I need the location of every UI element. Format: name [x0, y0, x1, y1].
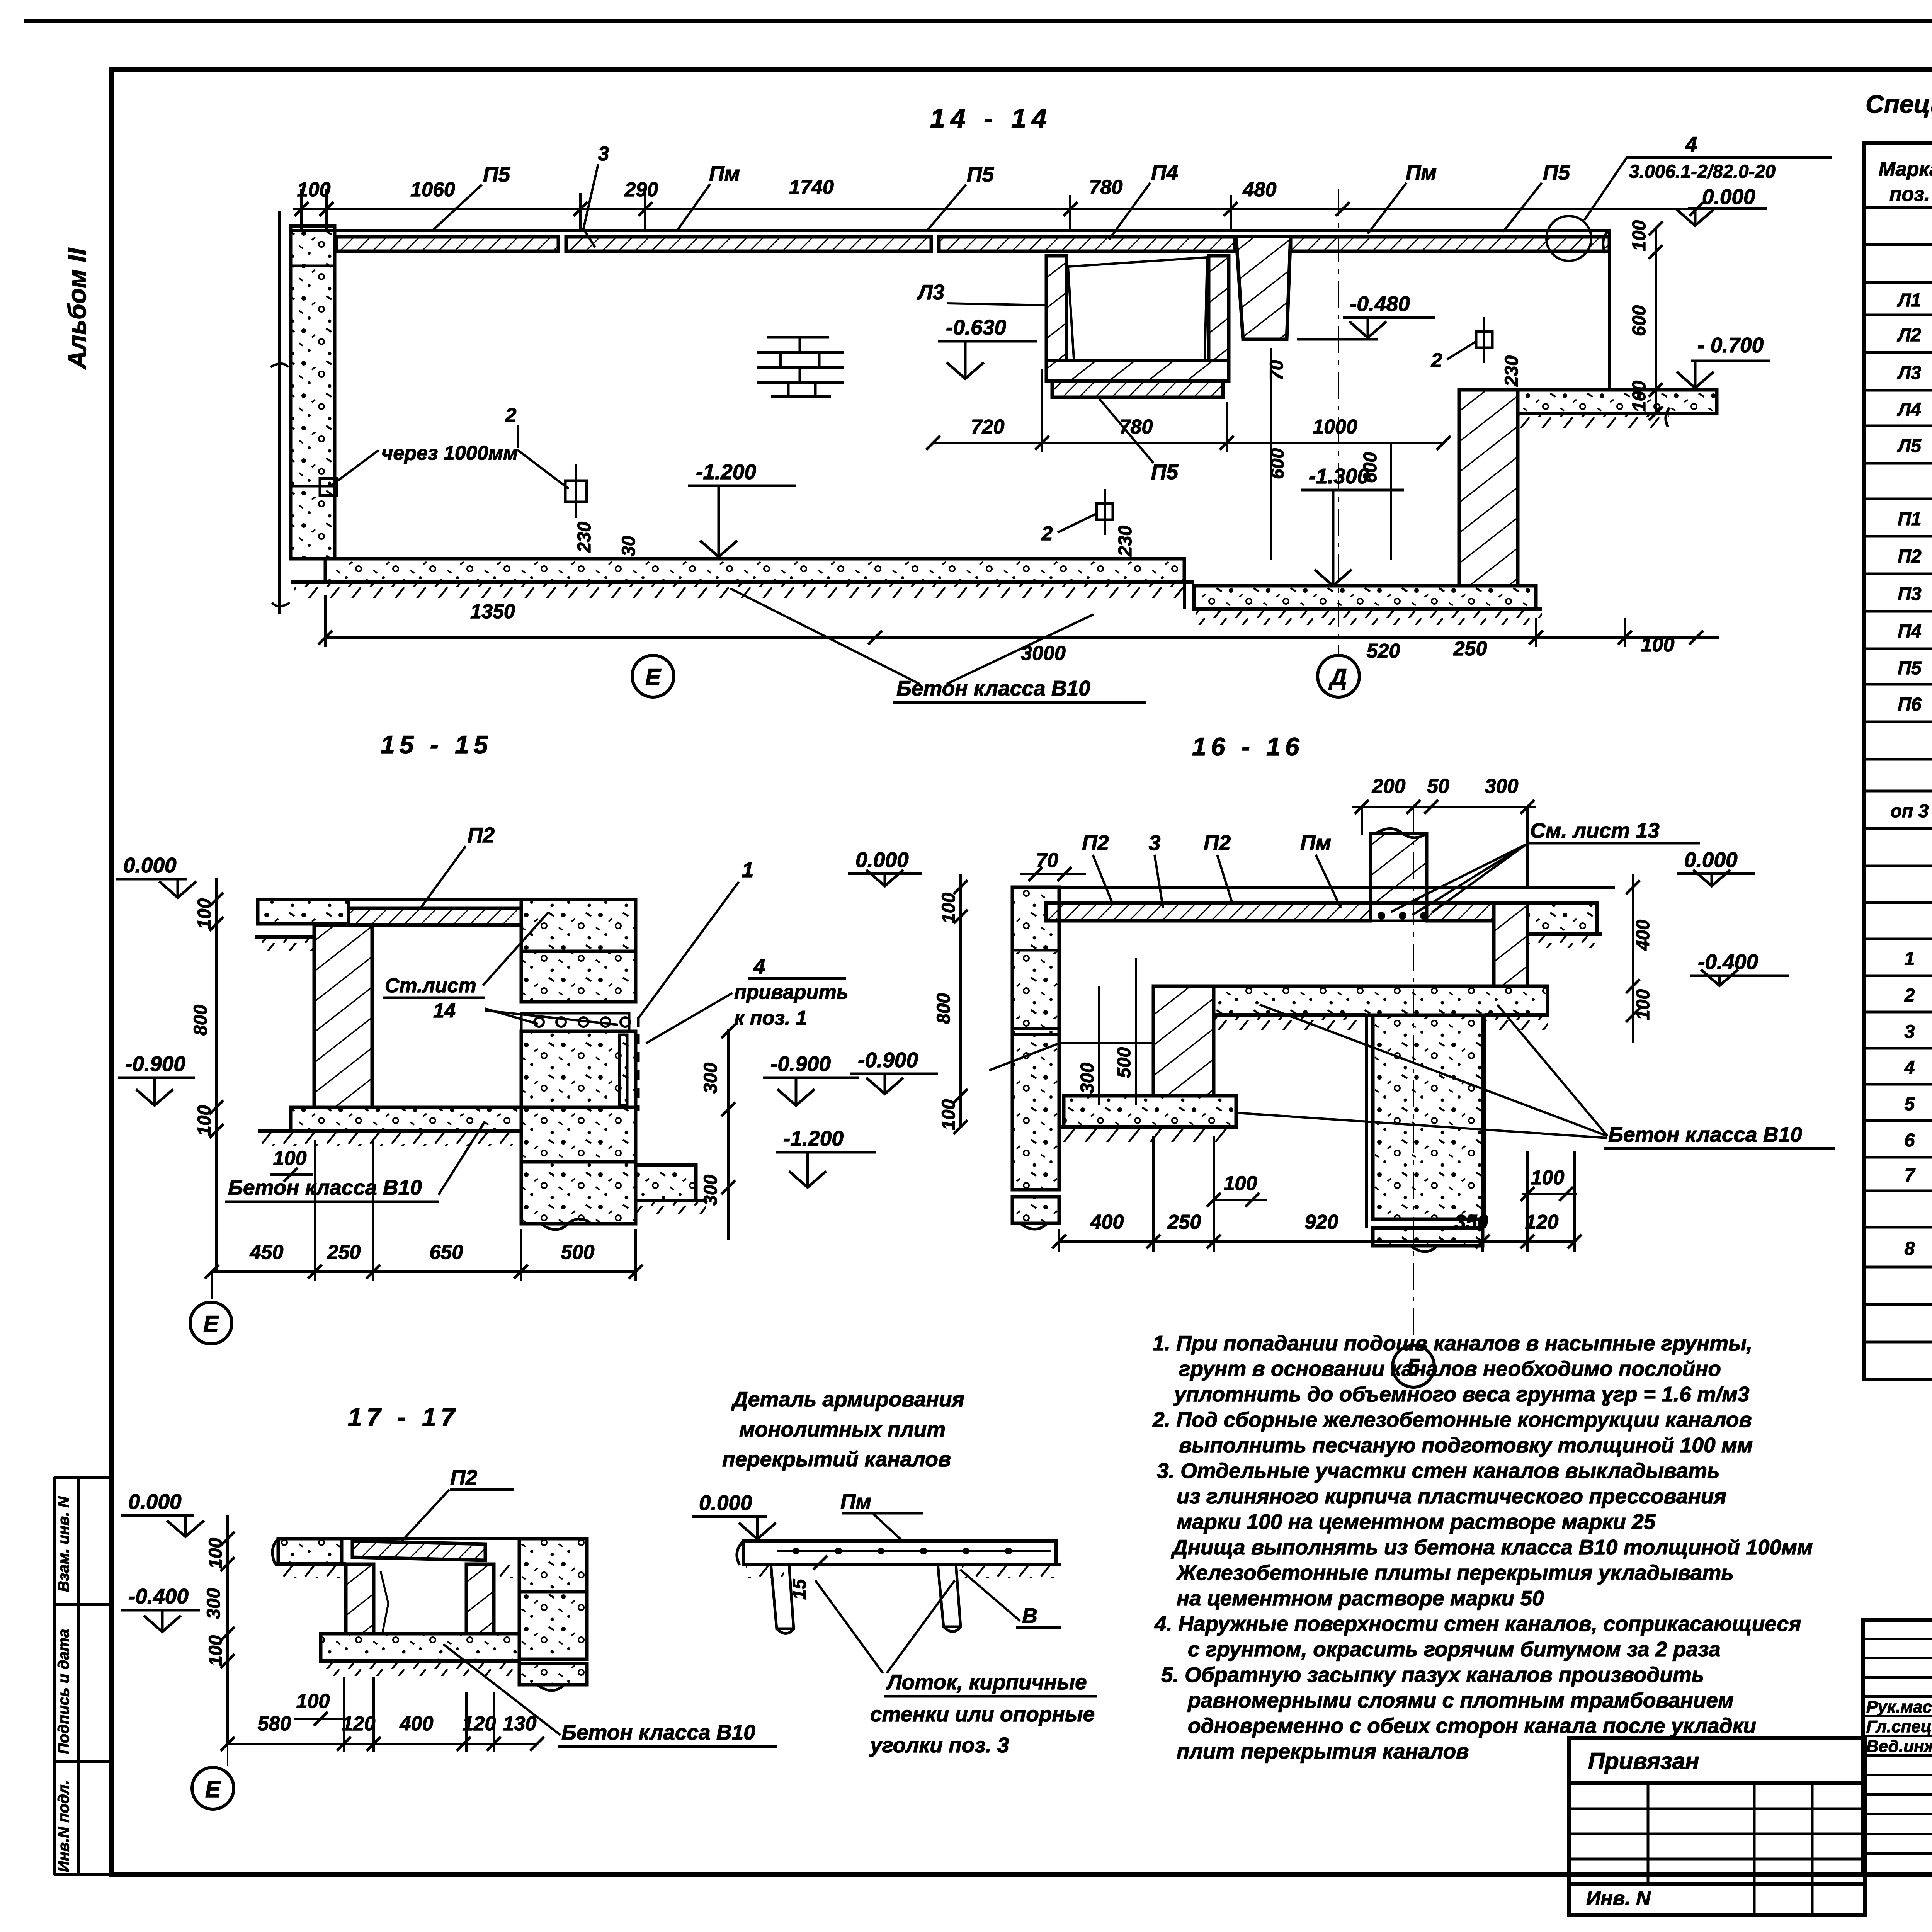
svg-text:720: 720: [971, 416, 1005, 438]
svg-text:-0.900: -0.900: [858, 1048, 918, 1072]
left stamp column: [53, 1477, 56, 1875]
svg-text:300: 300: [701, 1063, 721, 1094]
svg-text:14: 14: [433, 1000, 456, 1022]
svg-text:0.000: 0.000: [128, 1490, 182, 1514]
precast slab P5 hatched piece 3: [939, 237, 1235, 251]
svg-text:П2: П2: [1204, 831, 1231, 855]
svg-text:Бетон класса В10: Бетон класса В10: [228, 1175, 422, 1199]
svg-text:0.000: 0.000: [123, 853, 177, 877]
svg-text:Бетон класса В10: Бетон класса В10: [561, 1720, 755, 1744]
mid slab band: [1214, 986, 1548, 1015]
right blocks: [519, 1539, 587, 1592]
svg-text:1350: 1350: [470, 600, 515, 623]
slab hatched band right part: [1427, 903, 1494, 921]
svg-text:П2: П2: [1082, 831, 1109, 855]
right ground line: [1518, 412, 1670, 415]
svg-text:800: 800: [190, 1005, 211, 1036]
centerline axis 5: [1413, 807, 1414, 1344]
svg-text:250: 250: [1167, 1211, 1201, 1233]
svg-text:Взам. инв. N: Взам. инв. N: [55, 1496, 72, 1592]
svg-text:-0.900: -0.900: [125, 1052, 185, 1076]
svg-text:100: 100: [1633, 989, 1653, 1020]
svg-text:0.000: 0.000: [699, 1491, 752, 1515]
ground hatch under mid slab: [1214, 1013, 1366, 1017]
svg-text:Подпись и дата: Подпись и дата: [55, 1629, 72, 1754]
svg-text:Деталь армирования: Деталь армирования: [731, 1387, 964, 1411]
ground line upper: [291, 580, 1194, 584]
axis line: [227, 1744, 228, 1766]
svg-text:2. Под сборные железобетонные: 2. Под сборные железобетонные конструкци…: [1152, 1408, 1752, 1432]
svg-text:Пм: Пм: [1406, 160, 1437, 184]
channel right wall: [466, 1564, 494, 1634]
svg-text:из глиняного кирпича пластичес: из глиняного кирпича пластического пресс…: [1177, 1484, 1726, 1508]
svg-text:15: 15: [789, 1578, 810, 1600]
svg-text:Ст.лист: Ст.лист: [385, 975, 476, 997]
bottom chain: [228, 1743, 537, 1745]
svg-text:Л1: Л1: [1897, 290, 1921, 311]
svg-text:580: 580: [258, 1713, 291, 1735]
svg-text:100: 100: [296, 1690, 330, 1713]
spec table grid: [1864, 143, 1932, 1379]
wall joint 2: [291, 485, 335, 488]
pit concrete fill: [1373, 1015, 1483, 1219]
top dimension chain: [293, 189, 1696, 229]
svg-text:4: 4: [1685, 132, 1697, 156]
axis circle D: [1318, 655, 1359, 697]
anchor square bottom mid: [1097, 503, 1113, 520]
svg-text:Л3: Л3: [917, 280, 944, 304]
svg-text:1. При попадании подошв канало: 1. При попадании подошв каналов в насыпн…: [1153, 1331, 1752, 1355]
svg-text:600: 600: [1360, 452, 1381, 483]
svg-text:300: 300: [701, 1175, 721, 1206]
svg-text:с грунтом, окрасить горячим би: с грунтом, окрасить горячим битумом за 2…: [1188, 1637, 1721, 1661]
svg-text:100: 100: [1641, 634, 1675, 656]
svg-text:П3: П3: [1898, 584, 1922, 604]
svg-text:350: 350: [1455, 1211, 1488, 1233]
svg-text:2: 2: [1041, 522, 1053, 545]
svg-text:уплотнить до объемного веса гр: уплотнить до объемного веса грунта ɣгр =…: [1173, 1382, 1750, 1406]
svg-text:Е: Е: [205, 1776, 221, 1802]
svg-text:Лоток, кирпичные: Лоток, кирпичные: [886, 1670, 1087, 1694]
gap ground hatch: [495, 1565, 519, 1578]
svg-text:-0.900: -0.900: [770, 1052, 831, 1076]
svg-text:П6: П6: [1898, 694, 1922, 715]
bottom chain: [212, 1270, 636, 1273]
rebar dots: [1378, 912, 1385, 920]
centerline axis D: [1338, 189, 1339, 656]
title block names: [1866, 1697, 1932, 1756]
svg-text:500: 500: [561, 1241, 595, 1264]
wall joint 1: [291, 265, 335, 267]
ground line floor: [258, 1129, 521, 1133]
slab hatched band left: [1046, 903, 1371, 921]
svg-text:200: 200: [1372, 775, 1406, 798]
svg-text:250: 250: [327, 1241, 361, 1264]
anchor square on wall: [320, 478, 337, 495]
svg-text:5. Обратную засыпку пазух кана: 5. Обратную засыпку пазух каналов произв…: [1161, 1663, 1704, 1687]
P5 slab under channel: [1052, 381, 1223, 397]
left wall column: [1012, 887, 1059, 1190]
svg-text:100: 100: [1224, 1172, 1257, 1195]
brick symbol: [757, 337, 844, 396]
svg-text:0.000: 0.000: [855, 848, 909, 872]
svg-text:Е: Е: [203, 1311, 219, 1337]
svg-text:-1.200: -1.200: [783, 1126, 844, 1150]
svg-text:-0.400: -0.400: [1698, 950, 1758, 974]
channel L3 bottom: [1046, 361, 1229, 381]
svg-text:к поз. 1: к поз. 1: [734, 1007, 807, 1029]
right dim chain: [727, 1029, 730, 1240]
svg-text:100: 100: [194, 1105, 215, 1136]
table body: [1891, 218, 1932, 1335]
svg-text:50: 50: [1427, 775, 1449, 798]
right step band: [636, 1165, 696, 1201]
svg-text:Л5: Л5: [1897, 436, 1922, 456]
svg-text:100: 100: [206, 1538, 226, 1569]
svg-text:Л3: Л3: [1897, 363, 1921, 383]
left dim chain: [215, 878, 218, 1272]
top slab line: [258, 898, 636, 901]
svg-text:оп 3: оп 3: [1891, 801, 1929, 821]
svg-text:П5: П5: [967, 162, 995, 186]
svg-text:600: 600: [1267, 448, 1288, 479]
svg-text:0.000: 0.000: [1702, 185, 1755, 209]
svg-text:П2: П2: [468, 823, 495, 847]
precast slab Pm hatched piece 2: [566, 237, 931, 251]
floor slab lower level: [1194, 586, 1536, 609]
slab P2 hatched: [352, 1541, 485, 1560]
svg-text:Альбом II: Альбом II: [63, 247, 91, 370]
top dim texts: [297, 176, 1277, 201]
svg-text:400: 400: [400, 1713, 434, 1735]
left ground band: [278, 1539, 342, 1564]
title block left grid: [1863, 1620, 1932, 1875]
svg-text:1000: 1000: [1313, 416, 1357, 438]
svg-text:поз.: поз.: [1889, 183, 1930, 206]
anchor square mid: [565, 481, 587, 502]
svg-text:230: 230: [574, 522, 595, 553]
ground hatch upper: [294, 583, 1194, 598]
svg-text:920: 920: [1305, 1211, 1338, 1233]
svg-text:130: 130: [503, 1713, 537, 1735]
right concrete block 1: [521, 900, 636, 951]
perforated plate row: [521, 1013, 629, 1031]
axis circle E: [190, 1302, 232, 1344]
privyazan mini table: [1569, 1738, 1865, 1915]
right concrete block 2: [521, 951, 636, 1002]
right concrete block 5: [521, 1162, 636, 1224]
svg-text:2: 2: [1431, 349, 1442, 372]
left ext line: [278, 211, 281, 614]
svg-text:выполнить песчаную подготовку: выполнить песчаную подготовку толщиной 1…: [1179, 1433, 1753, 1457]
vent shaft above: [1371, 833, 1427, 903]
svg-text:П5: П5: [1898, 658, 1922, 679]
svg-text:4: 4: [753, 954, 765, 978]
embedded plate dashed: [637, 1017, 640, 1111]
svg-text:-1.200: -1.200: [696, 460, 756, 484]
left dim chain: [959, 874, 962, 1127]
svg-text:650: 650: [430, 1241, 463, 1264]
svg-text:П5: П5: [483, 162, 511, 186]
svg-text:230: 230: [1115, 526, 1136, 557]
svg-text:Рук.маст.: Рук.маст.: [1866, 1697, 1932, 1716]
svg-text:6: 6: [1905, 1130, 1915, 1151]
svg-text:3: 3: [1905, 1022, 1915, 1042]
svg-text:плит перекрытия каналов: плит перекрытия каналов: [1177, 1739, 1469, 1763]
svg-text:Спецификация элементов, замарк: Спецификация элементов, замаркированных …: [1866, 90, 1932, 118]
floor slab upper level: [325, 559, 1184, 582]
right dim chain: [1655, 228, 1657, 413]
left dim chain: [226, 1515, 229, 1744]
svg-text:Л2: Л2: [1897, 325, 1921, 345]
svg-text:400: 400: [1090, 1211, 1124, 1233]
svg-text:480: 480: [1243, 179, 1277, 201]
svg-text:5: 5: [1905, 1094, 1915, 1114]
axis line to E: [211, 1272, 213, 1302]
inner crack line: [381, 1571, 388, 1633]
svg-text:8: 8: [1905, 1238, 1915, 1259]
svg-text:800: 800: [934, 993, 954, 1024]
svg-text:-0.480: -0.480: [1350, 292, 1410, 316]
top slab line: [1012, 886, 1615, 889]
svg-text:Пм: Пм: [840, 1490, 871, 1514]
svg-text:Инв. N: Инв. N: [1586, 1887, 1651, 1910]
lower-left floor: [1064, 1096, 1236, 1127]
svg-text:100: 100: [206, 1635, 226, 1666]
svg-text:Гл.спец.: Гл.спец.: [1866, 1717, 1932, 1736]
svg-text:П4: П4: [1898, 621, 1921, 642]
top line: [278, 1537, 519, 1540]
vent shaft block: [1236, 236, 1291, 339]
svg-text:Днища выполнять из бетона клас: Днища выполнять из бетона класса В10 тол…: [1171, 1535, 1813, 1559]
svg-text:Е: Е: [645, 664, 662, 690]
svg-text:равномерными слоями с плотным: равномерными слоями с плотным трамбовани…: [1187, 1688, 1734, 1712]
bottom chain: [325, 636, 1719, 639]
svg-text:2: 2: [505, 404, 517, 427]
pier right hatched: [1459, 390, 1518, 586]
svg-text:3.006.1-2/82.0-20: 3.006.1-2/82.0-20: [1629, 162, 1776, 182]
right top band: [1527, 903, 1597, 934]
svg-text:290: 290: [624, 179, 658, 201]
svg-text:300: 300: [1485, 775, 1519, 798]
svg-text:1: 1: [742, 858, 754, 882]
svg-text:Марка: Марка: [1879, 158, 1932, 180]
concrete left wall: [291, 226, 335, 559]
svg-text:Д: Д: [1328, 664, 1347, 690]
svg-text:3. Отдельные участки стен кана: 3. Отдельные участки стен каналов выклад…: [1157, 1459, 1720, 1483]
right wall line: [1608, 230, 1611, 390]
svg-text:100: 100: [1629, 381, 1650, 412]
svg-text:100: 100: [297, 179, 331, 201]
svg-text:Привязан: Привязан: [1588, 1748, 1699, 1774]
pit walls: [1365, 1015, 1368, 1228]
svg-text:3: 3: [1149, 831, 1161, 855]
svg-text:15 - 15: 15 - 15: [381, 730, 492, 759]
precast slab P5 hatched piece 1: [336, 237, 558, 251]
right wall hatched: [1494, 903, 1527, 986]
ground hatch lower: [1196, 610, 1542, 625]
page outer border top: [24, 19, 1932, 23]
svg-text:Л4: Л4: [1897, 400, 1921, 420]
ground line lower: [1194, 607, 1542, 611]
svg-text:Пм: Пм: [1300, 831, 1331, 855]
svg-text:1060: 1060: [410, 179, 455, 201]
svg-text:монолитных плит: монолитных плит: [739, 1417, 946, 1441]
svg-text:П1: П1: [1898, 509, 1921, 529]
left ground line: [255, 935, 314, 939]
svg-text:Пм: Пм: [709, 162, 740, 185]
svg-text:17 - 17: 17 - 17: [348, 1403, 459, 1431]
svg-text:500: 500: [1114, 1047, 1134, 1078]
anchor square right top: [1476, 332, 1492, 348]
floor slab: [321, 1634, 519, 1661]
right ground hatch: [1519, 414, 1669, 428]
channel L3 left wall: [1046, 256, 1066, 361]
svg-text:250: 250: [1453, 638, 1487, 660]
svg-text:на цементном растворе марки 50: на цементном растворе марки 50: [1177, 1586, 1544, 1610]
svg-text:одновременно с обеих сторон ка: одновременно с обеих сторон канала после…: [1188, 1714, 1756, 1738]
svg-text:марки 100 на цементном раствор: марки 100 на цементном растворе марки 25: [1177, 1510, 1656, 1534]
svg-text:100: 100: [1629, 220, 1650, 251]
svg-text:3: 3: [598, 143, 609, 165]
svg-text:П2: П2: [450, 1466, 478, 1490]
bottom chain: [1059, 1240, 1575, 1243]
svg-text:См. лист 13: См. лист 13: [1530, 818, 1660, 842]
svg-text:0.000: 0.000: [1684, 848, 1738, 872]
svg-text:300: 300: [1077, 1063, 1098, 1094]
channel L3 inner line: [1068, 257, 1207, 359]
channel left wall: [346, 1564, 374, 1634]
weld detail circle: [1546, 216, 1591, 261]
svg-text:- 0.700: - 0.700: [1697, 333, 1764, 357]
svg-text:120: 120: [1525, 1211, 1559, 1233]
svg-text:В: В: [1022, 1604, 1037, 1628]
svg-text:70: 70: [1267, 360, 1287, 381]
precast slab Pm hatched piece 4: [1291, 237, 1609, 251]
svg-text:120: 120: [342, 1713, 376, 1735]
svg-text:Бетон класса В10: Бетон класса В10: [896, 676, 1090, 700]
top small dims: [1372, 775, 1519, 798]
svg-text:грунт в основании каналов необ: грунт в основании каналов необходимо пос…: [1179, 1357, 1721, 1381]
ground hatch under detail slab: [746, 1565, 784, 1578]
svg-text:1: 1: [1905, 949, 1915, 969]
right concrete block 4: [521, 1107, 636, 1162]
svg-text:400: 400: [1633, 920, 1653, 951]
left ground slab: [258, 900, 349, 924]
svg-text:Железобетонные плиты перекрыти: Железобетонные плиты перекрытия укладыва…: [1175, 1561, 1734, 1585]
V leaders to supports: [815, 1580, 955, 1673]
axis circle E: [632, 655, 674, 697]
svg-text:Инв.N подл.: Инв.N подл.: [55, 1780, 72, 1872]
svg-text:30: 30: [619, 536, 639, 556]
table header texts: [1879, 158, 1932, 206]
svg-text:-0.400: -0.400: [128, 1584, 189, 1608]
slab P2 hatched: [349, 908, 521, 925]
axis circle 5: [1393, 1345, 1434, 1387]
svg-text:П5: П5: [1151, 460, 1179, 484]
svg-text:-0.630: -0.630: [946, 315, 1006, 339]
svg-text:300: 300: [204, 1588, 224, 1619]
svg-text:100: 100: [1531, 1167, 1565, 1189]
svg-text:230: 230: [1502, 355, 1522, 387]
svg-text:П5: П5: [1543, 160, 1571, 184]
svg-text:П2: П2: [1898, 546, 1922, 567]
svg-text:120: 120: [463, 1713, 496, 1735]
svg-text:520: 520: [1367, 640, 1400, 662]
notes 1-5 text block: [1152, 1331, 1813, 1763]
svg-text:7: 7: [1905, 1165, 1916, 1186]
right concrete block 3: [521, 1031, 636, 1107]
svg-text:уголки поз. 3: уголки поз. 3: [869, 1733, 1009, 1757]
brick wall hatched: [314, 925, 372, 1107]
title block outer: [1863, 1620, 1932, 1875]
svg-text:100: 100: [194, 898, 215, 929]
svg-text:100: 100: [273, 1147, 307, 1170]
detail slab: [743, 1541, 1056, 1564]
vertical ext lines mid: [1270, 348, 1272, 560]
floor step: [1183, 582, 1186, 609]
svg-text:780: 780: [1089, 176, 1123, 199]
svg-text:4. Наружные поверхности стен к: 4. Наружные поверхности стен каналов, со…: [1154, 1612, 1801, 1636]
svg-text:перекрытий каналов: перекрытий каналов: [722, 1447, 951, 1471]
svg-text:1740: 1740: [789, 176, 834, 199]
svg-text:2: 2: [1904, 985, 1915, 1006]
svg-text:стенки или опорные: стенки или опорные: [870, 1702, 1095, 1726]
svg-text:Бетон класса В10: Бетон класса В10: [1608, 1122, 1802, 1146]
svg-text:14 - 14: 14 - 14: [930, 103, 1052, 133]
svg-text:приварить: приварить: [734, 981, 849, 1003]
right support wall: [938, 1564, 961, 1627]
svg-text:450: 450: [250, 1241, 284, 1264]
svg-text:Вед.инж.: Вед.инж.: [1866, 1737, 1932, 1756]
floor slab: [291, 1107, 521, 1131]
svg-text:4: 4: [1904, 1058, 1915, 1078]
svg-text:100: 100: [939, 1099, 959, 1130]
mid dims 720 780 1000: [971, 416, 1357, 438]
right ground band: [1518, 390, 1717, 413]
right dim chain: [1632, 874, 1634, 1043]
svg-text:5: 5: [1407, 1354, 1420, 1380]
axis circle E: [192, 1767, 234, 1809]
left support wall: [771, 1564, 794, 1629]
svg-text:600: 600: [1629, 305, 1650, 336]
pier hatched: [1153, 986, 1214, 1096]
channel L3 right wall: [1209, 256, 1229, 361]
slab top line: [291, 229, 1611, 232]
svg-text:16 - 16: 16 - 16: [1192, 732, 1304, 761]
svg-text:через 1000мм: через 1000мм: [381, 442, 518, 464]
svg-text:П4: П4: [1151, 160, 1178, 184]
svg-text:100: 100: [939, 893, 959, 923]
